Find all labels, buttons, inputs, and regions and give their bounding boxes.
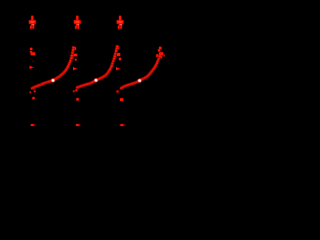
node terminal T1 bbox=[30, 124, 35, 127]
current highlight on W34 (stage3 to edge) bbox=[138, 79, 142, 83]
current highlight on W12 (stage1 to stage2) bbox=[51, 78, 55, 82]
coupling wire W34 (stage3 to edge) bbox=[119, 54, 161, 90]
coupling wire W23 (stage2 to stage3) bbox=[75, 45, 119, 90]
lower wire dots branch 2 bbox=[72, 89, 79, 101]
wire dots branch 2 bbox=[71, 47, 78, 62]
faint dot branch 1 bbox=[33, 61, 35, 62]
node terminal T3 bbox=[120, 124, 125, 127]
current source I1 bbox=[28, 15, 36, 29]
diode D2 bbox=[73, 67, 78, 71]
wire dots branch 3 bbox=[114, 46, 122, 61]
lower wire dots branch 3 bbox=[116, 90, 124, 102]
coupling wire W12 (stage1 to stage2) bbox=[30, 46, 75, 90]
wire dots branch 1 bbox=[30, 47, 36, 56]
node terminal T2 bbox=[76, 124, 81, 127]
current source I2 bbox=[73, 15, 81, 29]
lower wire dots branch 1 bbox=[29, 90, 36, 100]
faint dot branch 2 bbox=[72, 61, 74, 63]
diode D1 bbox=[30, 66, 35, 70]
wire dots at right edge (stage 4 off-screen) bbox=[156, 46, 166, 58]
diode D3 bbox=[116, 67, 121, 71]
current highlight on W23 (stage2 to stage3) bbox=[94, 78, 98, 82]
current source I3 bbox=[116, 15, 124, 29]
